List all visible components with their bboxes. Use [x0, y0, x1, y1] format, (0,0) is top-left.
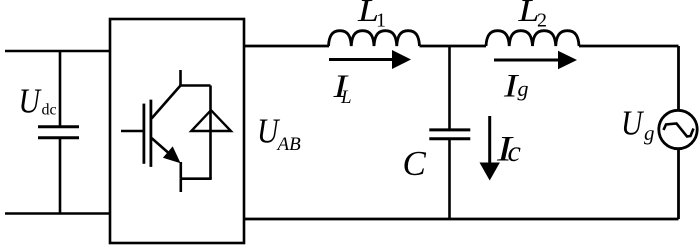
arrow current Ig [494, 51, 577, 70]
svg-text:U: U [621, 104, 645, 143]
wire top-left DC input [5, 50, 110, 53]
wire right rail upper [677, 46, 680, 111]
wire top rail from L1 to node C [420, 45, 487, 48]
arrow current IL [329, 50, 411, 69]
label U_dc [19, 81, 57, 120]
transistor Q1 emitter diagonal [152, 138, 177, 160]
wire bottom-left DC input [5, 212, 110, 215]
inductor L1 [329, 31, 420, 46]
capacitor C plates [429, 130, 470, 139]
wire filter capacitor lower lead [448, 140, 451, 219]
AC source sine symbol [664, 124, 694, 137]
wire top connector to diode [179, 84, 210, 87]
transistor Q1 emitter arrowhead [163, 146, 181, 163]
label U_AB [257, 111, 301, 154]
wire bottom rail [244, 218, 679, 221]
label I_L [332, 69, 351, 108]
transistor Q1 emitter stub [180, 179, 183, 192]
label I_C [496, 129, 521, 169]
svg-text:L: L [340, 87, 352, 108]
wire diode branch vertical [209, 86, 212, 179]
label L_1 [357, 0, 386, 31]
wire bottom connector from diode [181, 177, 212, 180]
svg-text:AB: AB [276, 134, 302, 155]
arrow current Ic [480, 116, 500, 181]
svg-text:1: 1 [376, 9, 386, 31]
wire filter capacitor upper lead [448, 46, 451, 129]
transistor Q1 emitter vertical [180, 162, 183, 179]
label U_g [621, 104, 655, 145]
AC source Ug circle [659, 110, 697, 148]
transistor Q1 collector diagonal [152, 86, 181, 119]
wire right rail lower [677, 149, 680, 220]
transistor Q1 main bar [149, 100, 152, 167]
transistor Q1 gate bar [142, 104, 145, 164]
inductor L2 [486, 31, 579, 46]
wire DC-link capacitor lower lead [59, 139, 62, 214]
svg-text:g: g [644, 121, 655, 145]
capacitor Cdc plates [38, 127, 79, 138]
wire top rail from L2 to grid source [579, 45, 679, 48]
svg-text:2: 2 [537, 9, 547, 31]
inverter block U1 (box) [110, 19, 244, 243]
svg-text:c: c [508, 135, 521, 168]
transistor Q1 gate lead [121, 130, 144, 133]
wire DC-link capacitor upper lead [59, 51, 62, 126]
svg-text:U: U [19, 81, 43, 120]
diode D1 triangle [191, 110, 231, 131]
svg-text:dc: dc [42, 102, 57, 119]
transistor Q1 collector stub [179, 70, 182, 87]
svg-text:g: g [518, 76, 529, 101]
label L_2 [517, 0, 547, 31]
svg-text:C: C [403, 144, 427, 183]
wire top rail from inverter to L1 [244, 45, 329, 48]
label I_g [503, 69, 529, 105]
